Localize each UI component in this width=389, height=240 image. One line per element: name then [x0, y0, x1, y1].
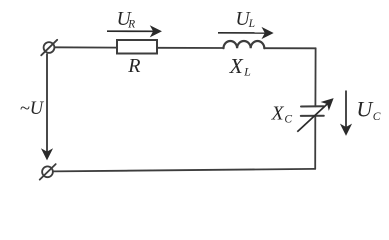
svg-text:UR: UR: [117, 9, 136, 31]
svg-text:R: R: [127, 55, 140, 77]
svg-text:UL: UL: [236, 9, 256, 30]
svg-text:XC: XC: [271, 103, 293, 125]
svg-text:UC: UC: [356, 96, 380, 122]
svg-text:~U: ~U: [20, 99, 45, 119]
svg-text:XL: XL: [229, 54, 252, 78]
